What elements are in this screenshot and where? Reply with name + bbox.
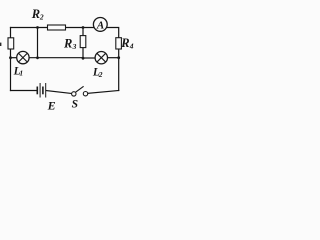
svg-text:2: 2	[98, 70, 103, 79]
svg-text:2: 2	[39, 13, 44, 22]
node dot middle-right junction	[117, 56, 120, 59]
svg-text:R: R	[120, 36, 129, 50]
wire top-left horizontal	[11, 27, 48, 29]
label R2	[31, 7, 44, 22]
svg-text:R: R	[31, 7, 40, 21]
lamp L1	[17, 51, 29, 63]
wire vertical node B branch	[37, 28, 39, 58]
switch S	[72, 86, 88, 96]
node dot top R3 junction	[82, 26, 85, 29]
node dot middle-left junction	[9, 56, 12, 59]
svg-text:E: E	[47, 99, 56, 113]
resistor R2	[48, 25, 66, 30]
wire R3 top lead	[82, 28, 84, 36]
resistor R3	[80, 36, 86, 48]
wire right vertical lower	[118, 58, 120, 91]
node dot middle R3 junction	[82, 57, 85, 60]
wire middle L2 to right vertical	[108, 57, 119, 59]
svg-text:S: S	[72, 99, 78, 111]
svg-text:1: 1	[19, 69, 23, 78]
wire top-right from ammeter down to R4	[106, 28, 119, 38]
wire middle left segment	[11, 57, 17, 59]
node dot middle node B junction	[36, 56, 39, 59]
label R3	[63, 36, 77, 51]
svg-text:A: A	[96, 20, 104, 32]
label R1 fragment at left edge	[0, 43, 1, 46]
wire middle between L1 and node	[29, 57, 83, 59]
ammeter A1	[93, 18, 107, 32]
wire middle between node and L2	[83, 57, 95, 59]
wire bottom left to battery	[11, 90, 37, 92]
wire switch to right corner	[88, 91, 119, 94]
lamp L2	[95, 52, 107, 64]
wire top between R2 and R3 node	[66, 27, 95, 29]
label R4	[120, 36, 133, 51]
svg-text:R: R	[63, 36, 72, 50]
wire R3 bottom lead	[82, 48, 84, 59]
node dot top-left junction	[36, 26, 39, 29]
label L1	[13, 66, 24, 78]
svg-text:3: 3	[72, 42, 77, 51]
wire R4 bottom lead	[118, 49, 120, 58]
resistor R1	[8, 38, 14, 49]
resistor R4	[116, 38, 122, 49]
svg-text:4: 4	[129, 42, 134, 51]
label L2	[92, 67, 103, 79]
wire left vertical lower	[10, 49, 12, 91]
wire battery to switch	[47, 91, 72, 94]
wire left vertical upper (R1 top lead)	[10, 28, 12, 38]
battery E	[37, 83, 45, 98]
